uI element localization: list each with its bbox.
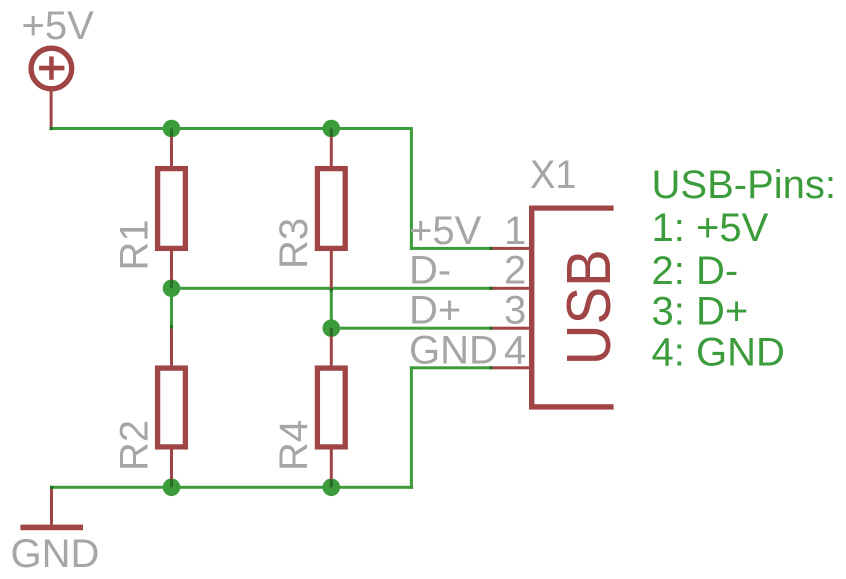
pin stub 1 of X1 xyxy=(491,247,530,250)
resistor R3 xyxy=(317,129,345,292)
svg-text:+5V: +5V xyxy=(409,209,482,253)
junction J6 at R4 bottom xyxy=(323,479,341,497)
wire net GND pin4 horizontal xyxy=(410,366,492,369)
pin connection mark stub 3 xyxy=(489,327,492,330)
pin connection mark stub 2 xyxy=(489,287,492,290)
svg-text:2: D-: 2: D- xyxy=(652,249,739,293)
svg-text:3: 3 xyxy=(504,289,526,333)
svg-text:R2: R2 xyxy=(113,420,157,471)
pin connection mark junction J4 xyxy=(330,328,333,336)
pin connection mark at gnd corner xyxy=(50,486,53,489)
svg-text:D-: D- xyxy=(409,249,451,293)
resistor R4 xyxy=(317,328,345,487)
svg-text:X1: X1 xyxy=(530,153,577,197)
pin connection mark junction J6 xyxy=(330,479,333,487)
svg-text:USB-Pins:: USB-Pins: xyxy=(652,163,837,207)
wire net D- vertical segment col1 xyxy=(170,287,173,329)
wire net +5V to pin 1 xyxy=(410,247,492,250)
pin connection mark junction J5 xyxy=(170,479,173,487)
resistor R1 xyxy=(158,129,186,289)
wire net D- horizontal xyxy=(172,287,493,290)
svg-text:4: 4 xyxy=(504,328,526,372)
wire net GND vertical jog xyxy=(410,366,413,489)
svg-text:1: +5V: 1: +5V xyxy=(652,206,769,250)
pin connection mark R2 top xyxy=(170,325,173,328)
junction J1 at R1 top xyxy=(163,120,181,138)
svg-text:3: D+: 3: D+ xyxy=(652,290,749,334)
wire net +5V vertical jog xyxy=(410,127,413,250)
pin connection mark junction J1 xyxy=(170,129,173,137)
svg-text:R3: R3 xyxy=(272,218,316,269)
pin connection mark junction J3 xyxy=(170,280,173,288)
svg-text:4: GND: 4: GND xyxy=(652,331,785,375)
svg-text:GND: GND xyxy=(11,532,100,576)
svg-text:2: 2 xyxy=(504,249,526,293)
power +5V supply symbol P1 xyxy=(31,48,72,128)
svg-text:D+: D+ xyxy=(409,289,461,333)
pin connection mark R3 bottom xyxy=(330,288,333,291)
ground symbol GND xyxy=(20,487,83,530)
resistor R2 xyxy=(158,328,186,487)
junction J2 at R3 top xyxy=(323,120,341,138)
junction J3 at node D- xyxy=(163,280,181,298)
wire net GND bottom horizontal xyxy=(51,486,413,489)
connector X1 body xyxy=(529,206,614,410)
svg-text:USB: USB xyxy=(555,249,624,365)
svg-text:R1: R1 xyxy=(113,219,157,270)
pin stub 4 of X1 xyxy=(491,366,530,369)
svg-text:1: 1 xyxy=(504,209,526,253)
pin stub 3 of X1 xyxy=(491,327,530,330)
wire net +5V top horizontal xyxy=(51,127,412,130)
svg-text:+5V: +5V xyxy=(22,4,95,48)
pin connection mark stub 1 xyxy=(489,247,492,250)
junction J4 at node D+ xyxy=(323,319,341,337)
pin connection mark at supply corner xyxy=(50,127,53,130)
pin connection mark junction J2 xyxy=(330,129,333,137)
pin stub 2 of X1 xyxy=(491,287,530,290)
pin connection mark stub 4 xyxy=(489,366,492,369)
svg-text:GND: GND xyxy=(409,328,498,372)
wire net D+ horizontal xyxy=(330,327,492,330)
junction J5 at R2 bottom xyxy=(163,479,181,497)
wire net D+ vertical segment col2 xyxy=(330,288,333,330)
svg-text:R4: R4 xyxy=(272,420,316,471)
